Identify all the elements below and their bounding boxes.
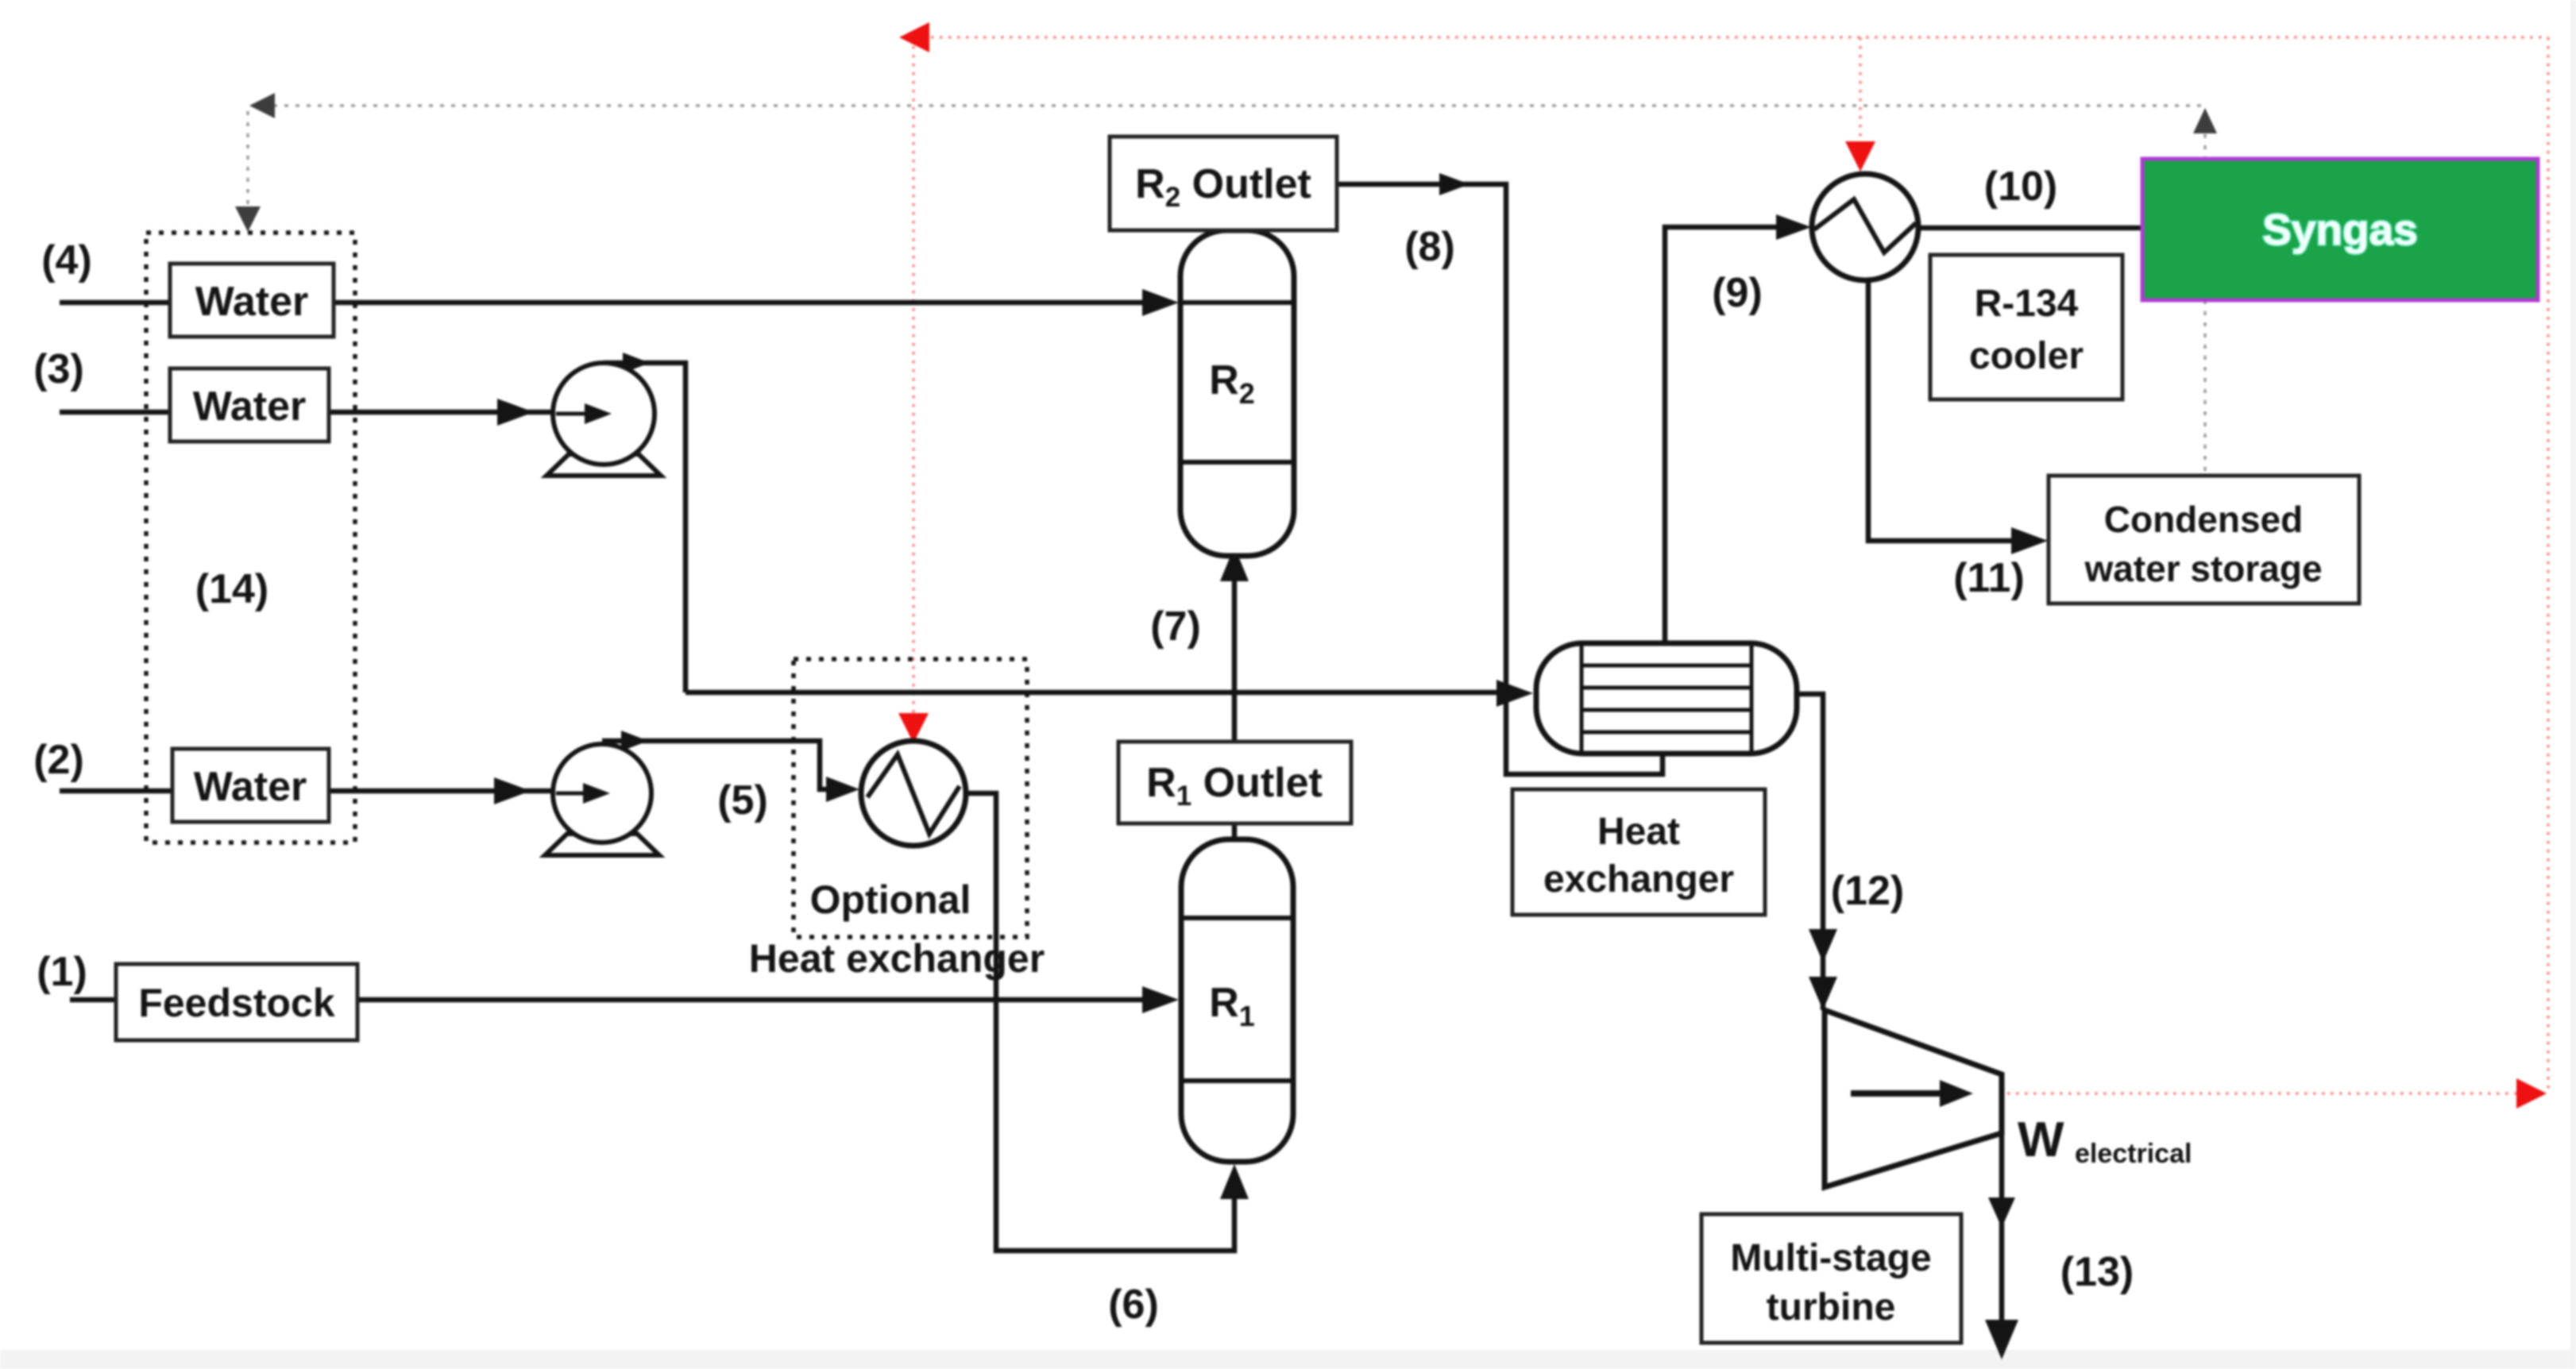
svg-text:Heat: Heat	[1597, 811, 1680, 853]
svg-text:(4): (4)	[41, 237, 92, 283]
svg-text:cooler: cooler	[1969, 335, 2084, 377]
svg-text:(13): (13)	[2060, 1249, 2134, 1295]
svg-text:(1): (1)	[37, 949, 87, 995]
svg-text:(12): (12)	[1831, 868, 1904, 914]
svg-text:(2): (2)	[33, 737, 84, 783]
svg-text:(11): (11)	[1953, 555, 2025, 601]
svg-text:Water: Water	[195, 279, 309, 325]
svg-text:(7): (7)	[1150, 604, 1201, 650]
svg-text:Water: Water	[193, 384, 307, 430]
svg-text:R2 Outlet: R2 Outlet	[1135, 161, 1311, 213]
svg-text:(10): (10)	[1984, 164, 2057, 210]
svg-text:Feedstock: Feedstock	[138, 981, 335, 1025]
svg-text:(5): (5)	[717, 777, 768, 823]
svg-text:turbine: turbine	[1767, 1286, 1896, 1329]
svg-text:(14): (14)	[195, 566, 268, 612]
svg-text:electrical: electrical	[2075, 1139, 2192, 1169]
svg-text:Heat exchanger: Heat exchanger	[749, 936, 1045, 981]
svg-text:W: W	[2018, 1113, 2064, 1167]
svg-text:exchanger: exchanger	[1543, 858, 1734, 900]
svg-text:Syngas: Syngas	[2262, 205, 2418, 254]
svg-text:Condensed: Condensed	[2104, 499, 2303, 540]
svg-text:R1 Outlet: R1 Outlet	[1146, 760, 1323, 812]
svg-text:(3): (3)	[33, 346, 84, 392]
svg-text:Optional: Optional	[810, 877, 971, 922]
svg-text:(8): (8)	[1404, 224, 1455, 270]
svg-text:R-134: R-134	[1975, 283, 2079, 325]
svg-text:(9): (9)	[1712, 270, 1763, 316]
svg-text:Multi-stage: Multi-stage	[1730, 1237, 1931, 1279]
svg-text:Water: Water	[194, 764, 307, 810]
svg-text:water storage: water storage	[2084, 548, 2322, 589]
svg-text:(6): (6)	[1108, 1282, 1159, 1328]
